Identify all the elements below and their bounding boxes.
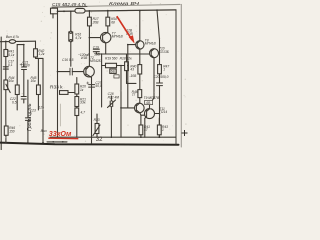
resistor R17 — [88, 17, 92, 26]
wire V16a rail to T8 — [139, 11, 141, 41]
fuse box at rail left end — [51, 8, 58, 14]
svg-text:10к: 10к — [9, 79, 15, 83]
svg-text:МП41В: МП41В — [145, 42, 157, 46]
potentiometer R43 — [4, 80, 8, 90]
svg-text:Громкость: Громкость — [27, 103, 33, 131]
wire V13 x107.8 rail to T7 — [107, 11, 109, 32]
wire C28 column — [110, 96, 112, 137]
svg-text:6В: 6В — [111, 70, 115, 74]
resistor R18 — [125, 62, 129, 71]
trimmer arrow R33 — [93, 125, 100, 136]
right inner frame wire — [175, 10, 177, 145]
svg-text:1000: 1000 — [22, 63, 29, 67]
trimmer capacitor C28 — [108, 100, 116, 108]
resistor R42 — [34, 49, 38, 57]
transistor T10 — [150, 49, 159, 58]
capacitor C23 — [25, 118, 30, 121]
svg-text:1,2к: 1,2к — [38, 52, 45, 56]
paper speckle noise — [5, 2, 187, 142]
svg-text:С15 4В2,49 4,7к: С15 4В2,49 4,7к — [52, 2, 87, 7]
plus C27 — [87, 82, 89, 84]
right gray page frame — [180, 4, 182, 147]
wire H3 base T2 — [58, 71, 86, 73]
wire V16 T8 to TA — [139, 49, 141, 104]
svg-text:И1В: И1В — [81, 56, 88, 60]
svg-text:50,0: 50,0 — [95, 84, 102, 88]
wire y141.9 with dots — [47, 141, 67, 143]
wire H y44.6 — [17, 44, 24, 46]
capacitor C20 — [157, 83, 163, 86]
wire V9 x76.8 — [76, 78, 78, 138]
plus C21 — [20, 63, 23, 65]
svg-text:4,7к: 4,7к — [75, 36, 82, 40]
svg-text:П214: П214 — [159, 110, 167, 114]
resistor R47 — [158, 65, 162, 74]
svg-text:4,7: 4,7 — [81, 111, 86, 115]
top gray page line — [52, 4, 180, 7]
wire V11 x91.5 — [91, 77, 93, 143]
wire H7 y65.5 — [102, 65, 128, 67]
wire R43 column — [158, 118, 160, 137]
red underline — [48, 137, 78, 140]
wire V12 x101.6 — [101, 54, 103, 107]
stub below fuse box — [52, 14, 54, 18]
wire T10 emitter to TB — [153, 58, 155, 98]
resistor R19 horizontal — [106, 63, 117, 67]
wire H6 y54 — [96, 53, 149, 55]
svg-text:1к: 1к — [80, 88, 84, 92]
svg-text:0,1: 0,1 — [8, 63, 13, 67]
resistor R54 — [106, 17, 110, 26]
top supply rail — [53, 10, 176, 12]
transistor T7 — [101, 32, 111, 42]
box -6V — [145, 100, 153, 104]
wire TB collector up — [150, 98, 154, 109]
wire V6 x43 — [42, 58, 44, 142]
wire V7 x57 — [57, 11, 59, 137]
svg-text:-10В: -10В — [129, 74, 137, 78]
box small mid — [114, 75, 119, 78]
svg-text:47: 47 — [144, 128, 148, 132]
capacitor C21 — [22, 67, 27, 70]
resistor R46b — [138, 90, 142, 98]
wire input top — [0, 40, 36, 43]
capacitor C2 — [70, 68, 72, 75]
svg-text:МП41В: МП41В — [112, 35, 124, 39]
svg-text:С20 500,0: С20 500,0 — [153, 75, 168, 79]
resistor R16 — [69, 32, 73, 41]
svg-text:10к: 10к — [31, 79, 37, 83]
T7 emitter down — [105, 43, 107, 54]
wire TA column to R41 — [140, 115, 142, 125]
svg-text:R33 k: R33 k — [50, 85, 63, 91]
wire H12 y137.2 — [50, 136, 176, 138]
resistor R18h horizontal — [60, 91, 69, 95]
svg-text:П213Б: П213Б — [159, 50, 169, 54]
resistor R41 — [4, 50, 8, 57]
transistor T2 — [84, 66, 95, 77]
svg-text:77: 77 — [132, 93, 136, 97]
svg-text:32: 32 — [96, 137, 103, 143]
svg-text:Т9 МП37В: Т9 МП37В — [144, 96, 160, 100]
svg-text:68: 68 — [111, 20, 115, 24]
wire V2 x17 — [16, 45, 18, 110]
svg-text:R33: R33 — [94, 118, 100, 122]
wire H9 TA base — [121, 107, 136, 109]
svg-text:Клема ВЧ: Клема ВЧ — [109, 1, 140, 7]
svg-text:50В: 50В — [94, 53, 101, 57]
trimmer resistor R33 — [95, 124, 99, 134]
svg-text:МП42Б: МП42Б — [90, 59, 101, 63]
svg-text:0,5: 0,5 — [12, 100, 17, 104]
wire below R41b — [140, 135, 142, 137]
svg-text:43: 43 — [130, 68, 134, 72]
transistor TB T11 — [145, 109, 155, 119]
svg-text:С16 0,5: С16 0,5 — [62, 58, 74, 62]
bottom rail — [0, 143, 179, 145]
wire TB base — [141, 114, 147, 116]
capacitor C27 — [89, 85, 95, 88]
wire H x35.5-57 y58.4 — [36, 57, 44, 59]
red annotation arrow — [117, 16, 135, 44]
resistor R44 — [15, 85, 19, 95]
svg-text:33кОм: 33кОм — [49, 129, 72, 138]
svg-text:1: 1 — [162, 128, 164, 132]
wire H5 T8 base — [128, 44, 137, 46]
wire R33 column — [96, 114, 98, 137]
capacitor C19 — [93, 49, 99, 54]
lamp oval Vk — [9, 40, 15, 44]
plus mark bottom right — [182, 130, 188, 136]
wire V3 x24 — [23, 45, 25, 103]
wire V8 x65.5 — [70, 11, 72, 66]
left page edge — [0, 37, 2, 150]
wire V1 x5 — [5, 41, 7, 142]
fuse oval on rail — [75, 8, 85, 13]
svg-text:Вкл 4,7к: Вкл 4,7к — [6, 35, 19, 39]
svg-text:R19 560: R19 560 — [105, 57, 117, 61]
resistor R41b — [139, 125, 143, 135]
svg-text:5,1к: 5,1к — [8, 53, 15, 57]
wire V14 x121 — [120, 66, 122, 138]
resistor R20 — [75, 84, 79, 94]
transistor T8 — [136, 41, 144, 49]
capacitor C17 — [3, 67, 8, 69]
transistor TA T9 — [135, 103, 145, 113]
wire TA emitter down — [140, 113, 141, 115]
svg-text:150: 150 — [9, 129, 15, 133]
svg-text:Вых: Вых — [41, 129, 47, 133]
pot arrow — [6, 84, 10, 92]
capacitor C22 — [21, 97, 26, 100]
svg-text:20В: 20В — [92, 20, 100, 24]
svg-text:R18 12к: R18 12к — [120, 57, 132, 61]
svg-text:С19: С19 — [93, 45, 99, 49]
wire H8 y83.4 — [127, 82, 137, 84]
resistor R22 — [75, 108, 79, 116]
resistor R40 — [138, 65, 142, 74]
box 6V — [110, 69, 116, 73]
wire ghost line — [59, 104, 61, 126]
wire V15 x129.5 — [127, 45, 129, 108]
wire TB output right — [155, 113, 160, 115]
wire r18 to V9 — [68, 92, 77, 94]
wire V5 x35.5 — [36, 41, 39, 110]
resistor R43b — [157, 125, 161, 135]
wire V3b x27.6 — [27, 80, 29, 143]
svg-text:1: 1 — [163, 68, 165, 72]
wire V10 x89.4 — [88, 11, 90, 67]
svg-text:R22 4М: R22 4М — [108, 95, 120, 99]
resistor R21 — [75, 97, 79, 107]
svg-text:ЗЗк: ЗЗк — [80, 101, 86, 105]
wire T7 base from V10 — [89, 37, 102, 39]
wire TB emitter down — [144, 118, 146, 137]
wire V20 x160.2 — [157, 10, 160, 137]
resistor R46 150 — [4, 126, 8, 135]
svg-text:-6В: -6В — [145, 101, 150, 105]
